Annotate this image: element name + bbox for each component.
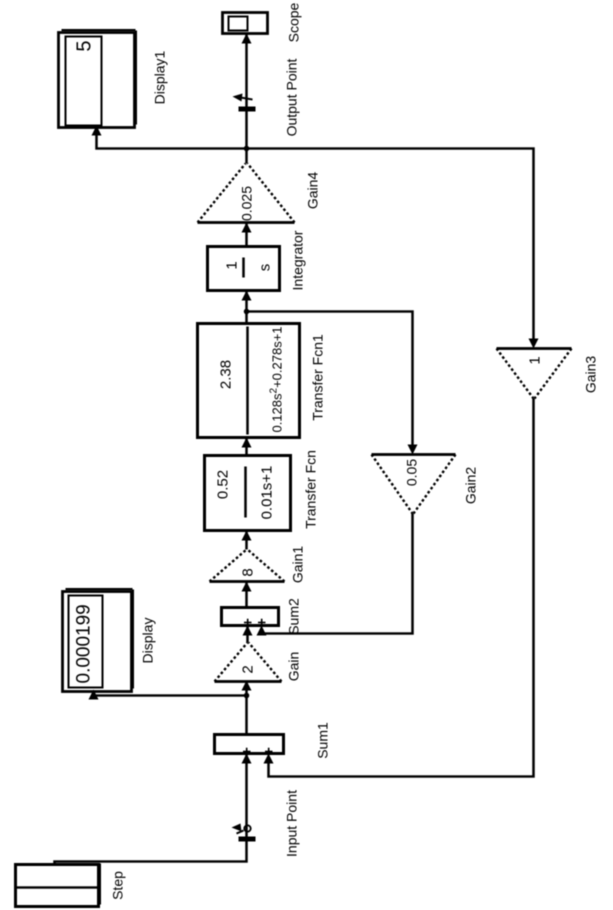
wire Gain3 to Sum1 (268, 398, 533, 776)
svg-text:0.128s2+0.278s+1: 0.128s2+0.278s+1 (268, 326, 284, 432)
svg-text:Gain: Gain (285, 651, 301, 681)
wire feedback Gain3 path (246, 148, 533, 342)
wire Sum2 to Gain1 (245, 581, 247, 607)
arrow into Sum1 second input (263, 753, 273, 763)
arrow into Gain2 (407, 444, 417, 454)
block Step (15, 863, 100, 906)
arrow into Scope (241, 33, 251, 43)
wire to Display1 (96, 127, 246, 148)
wire Sum1 to Gain (245, 681, 247, 734)
svg-text:Gain3: Gain3 (582, 355, 598, 393)
svg-text:Transfer Fcn1: Transfer Fcn1 (309, 333, 325, 420)
wire to Display (93, 691, 246, 695)
svg-text:+: + (238, 746, 255, 755)
svg-text:0.52: 0.52 (214, 469, 231, 498)
block Integrator (207, 246, 279, 290)
svg-text:Integrator: Integrator (289, 230, 305, 290)
svg-text:8: 8 (239, 568, 256, 576)
wire Gain2 to Sum2 (261, 513, 412, 635)
svg-text:2: 2 (239, 665, 256, 673)
arrow into Gain4 (241, 222, 251, 232)
wire Gain1 to Transfer Fcn (245, 530, 247, 549)
arrow into Sum2 main input (242, 625, 252, 635)
arrow into Gain1 (241, 581, 251, 591)
arrow into Transfer Fcn (241, 530, 251, 540)
gain block Gain1 (value 8) (209, 549, 284, 581)
input linearization point marker (231, 823, 255, 841)
arrow into Sum2 second input (256, 625, 266, 635)
arrow into Display (88, 689, 98, 699)
wire feedback Gain2 path (246, 311, 412, 448)
svg-text:Gain4: Gain4 (304, 171, 320, 209)
gain block Gain (value 2) (214, 642, 281, 681)
svg-text:0.000199: 0.000199 (73, 604, 94, 683)
gain block Gain4 (value 0.025) (197, 163, 294, 222)
svg-text:Gain2: Gain2 (462, 466, 478, 504)
svg-text:1: 1 (526, 356, 543, 364)
wire Step to Sum1 (54, 753, 246, 864)
svg-text:Sum1: Sum1 (314, 722, 330, 759)
arrow into Gain (241, 680, 251, 690)
block Display1 (58, 30, 136, 128)
sum block Sum1 (214, 734, 283, 755)
svg-text:Transfer Fcn: Transfer Fcn (302, 450, 318, 529)
svg-text:Scope: Scope (285, 2, 301, 42)
svg-text:Gain1: Gain1 (289, 545, 305, 583)
svg-text:0.01s+1: 0.01s+1 (258, 465, 275, 519)
arrow into Gain3 (528, 338, 538, 348)
svg-text:s: s (256, 263, 273, 271)
wire Transfer Fcn to Transfer Fcn1 (245, 437, 247, 455)
svg-text:Sum2: Sum2 (285, 598, 301, 635)
svg-text:0.025: 0.025 (238, 185, 254, 220)
wire Gain4 to Scope (245, 33, 247, 163)
svg-text:0.05: 0.05 (403, 458, 419, 485)
gain block Gain3 (value 1) (496, 348, 571, 398)
arrow into Integrator (241, 290, 251, 300)
wire Transfer Fcn1 to Integrator (245, 290, 247, 323)
svg-text:Input Point: Input Point (283, 789, 299, 856)
svg-text:Display: Display (139, 617, 155, 663)
output linearization point marker (232, 93, 255, 111)
node junction to Gain2 (243, 308, 249, 314)
arrow into Display1 (91, 125, 101, 135)
block Transfer Fcn1 (197, 323, 299, 437)
sum block Sum2 (221, 607, 278, 626)
svg-text:1: 1 (223, 261, 240, 269)
arrow into Sum1 main input (241, 753, 251, 763)
node junction output (243, 145, 249, 151)
svg-text:5: 5 (73, 40, 95, 51)
wire Gain to Sum2 (246, 625, 248, 642)
block Scope (222, 12, 267, 33)
svg-text:Step: Step (109, 870, 125, 899)
arrow into Transfer Fcn1 (241, 437, 251, 447)
wire Integrator to Gain4 (245, 222, 247, 246)
svg-text:2.38: 2.38 (217, 359, 234, 388)
gain block Gain2 (value 0.05) (371, 454, 455, 513)
svg-text:Display1: Display1 (151, 50, 167, 104)
block Transfer Fcn (204, 455, 290, 530)
svg-text:Output Point: Output Point (283, 58, 299, 136)
node junction to Display (243, 692, 249, 698)
block Display (62, 589, 133, 692)
svg-text:+: + (253, 617, 270, 626)
